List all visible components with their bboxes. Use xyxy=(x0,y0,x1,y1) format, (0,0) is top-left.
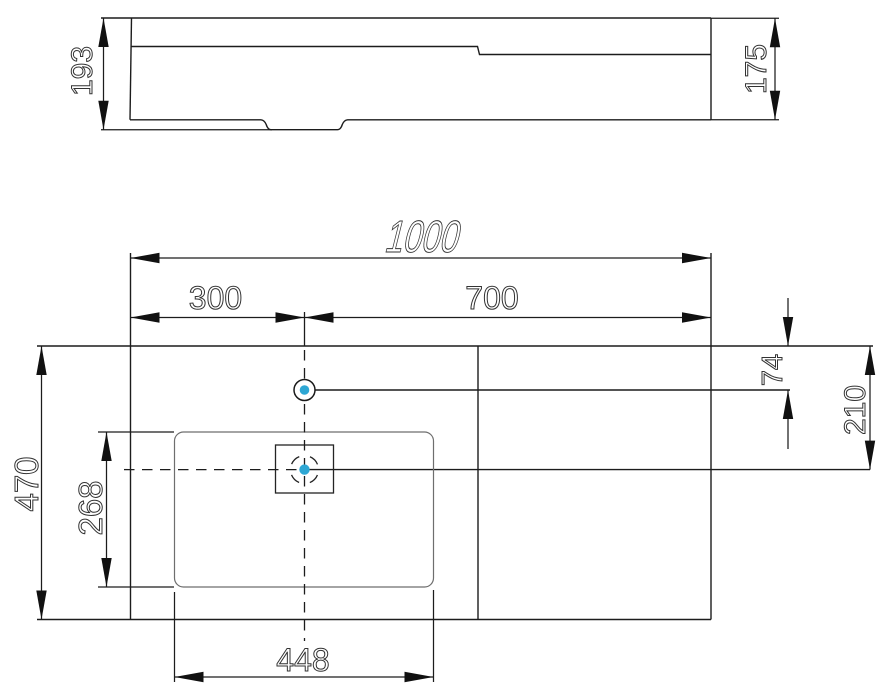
dim 470 line xyxy=(41,346,43,620)
svg-text:74: 74 xyxy=(757,354,789,386)
side view bottom left segment xyxy=(130,119,261,121)
side view right edge xyxy=(710,18,712,120)
dim 448 extension left xyxy=(174,592,176,682)
dim 193 arrow down xyxy=(98,101,108,130)
side view bottom right segment xyxy=(348,119,712,121)
dim 268 line xyxy=(106,432,108,587)
dim 175 arrow up xyxy=(770,18,780,47)
dim 470 arrow down xyxy=(36,591,46,620)
dim 210 arrow up xyxy=(865,346,875,375)
svg-text:700: 700 xyxy=(465,280,518,316)
side view drain hump xyxy=(261,120,348,130)
dim 210 arrow down xyxy=(865,441,875,470)
dim 448 arrow right xyxy=(405,672,434,682)
dim 700 arrow left xyxy=(305,312,334,322)
dim 448 arrow left xyxy=(175,672,204,682)
drain horizontal line xyxy=(305,469,871,471)
dim 300 arrow right xyxy=(276,312,305,322)
svg-text:268: 268 xyxy=(72,480,109,535)
side view left edge xyxy=(130,18,132,120)
dim 448 extension right xyxy=(433,590,435,682)
side view inner profile line with step xyxy=(131,47,711,55)
dim 300 arrow left xyxy=(131,312,160,322)
dim 268 arrow down xyxy=(101,558,111,587)
dim 74 line upper xyxy=(787,298,789,346)
dim 448 line xyxy=(175,676,434,678)
basin rounded rect xyxy=(175,432,434,587)
drain dashed circle xyxy=(291,456,319,484)
dim 1000 arrow right xyxy=(682,253,711,263)
dim 193 arrow up xyxy=(98,18,108,47)
svg-text:448: 448 xyxy=(276,642,329,678)
faucet blue dot xyxy=(300,385,310,395)
dim 700 arrow right xyxy=(682,312,711,322)
dim 1000 line xyxy=(131,257,712,259)
svg-text:193: 193 xyxy=(66,46,99,96)
dim 1000 arrow left xyxy=(131,253,160,263)
dim 74 line lower xyxy=(787,390,789,449)
svg-text:1000: 1000 xyxy=(381,212,467,262)
plan top edge with extensions xyxy=(37,345,873,347)
dim 74 arrow up xyxy=(783,390,793,419)
plan bottom edge with extension xyxy=(37,619,711,621)
vertical centerline dashed xyxy=(304,350,306,641)
svg-text:300: 300 xyxy=(189,280,242,316)
dim 175 extension bottom xyxy=(711,119,779,121)
centerline solid stub at 300/700 junction xyxy=(304,312,306,346)
dim 193 extension bottom xyxy=(101,129,272,131)
drain square xyxy=(276,445,334,493)
dim 268 extension top xyxy=(98,431,174,433)
svg-text:470: 470 xyxy=(8,456,45,511)
side view top edge with extension xyxy=(101,17,711,19)
plan right edge with extension up xyxy=(710,253,712,620)
dim 210 line xyxy=(869,346,871,470)
drain blue dot xyxy=(299,464,309,474)
faucet horizontal line xyxy=(314,389,790,391)
dim 470 arrow up xyxy=(36,346,46,375)
svg-text:210: 210 xyxy=(839,385,872,435)
dim 175 line xyxy=(774,18,776,120)
horizontal centerline dashed xyxy=(124,469,299,471)
dim 175 extension top xyxy=(711,17,779,19)
dim 268 arrow up xyxy=(101,432,111,461)
plan left edge with extension up xyxy=(130,253,132,620)
dim 193 line xyxy=(103,18,105,130)
dim 74 arrow down xyxy=(783,317,793,346)
dim 300 700 line xyxy=(131,317,712,319)
svg-text:175: 175 xyxy=(740,44,773,94)
dim 175 arrow down xyxy=(770,91,780,120)
dim 268 extension bottom xyxy=(98,586,174,588)
faucet hole circle xyxy=(294,380,315,401)
plan divider line xyxy=(477,346,479,620)
